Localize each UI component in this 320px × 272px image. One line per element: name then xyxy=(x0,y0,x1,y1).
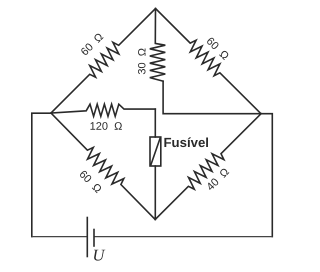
svg-text:60 Ω: 60 Ω xyxy=(204,35,231,62)
wire left node to left edge xyxy=(32,113,51,236)
resistor 60ohm top-left branch xyxy=(51,9,156,114)
svg-text:Fusível: Fusível xyxy=(163,135,208,150)
resistor 40ohm bottom-right branch xyxy=(155,114,261,220)
wire bottom right to battery xyxy=(94,236,272,238)
wire bottom left to battery xyxy=(32,236,88,238)
wire fuse to bottom node xyxy=(154,166,156,220)
svg-text:U: U xyxy=(92,246,105,265)
svg-text:120 Ω: 120 Ω xyxy=(90,121,123,133)
resistor 30ohm vertical xyxy=(150,9,166,82)
fuse F1 xyxy=(150,137,161,166)
battery U: long plate xyxy=(86,218,88,257)
resistor 60ohm top-right branch xyxy=(156,9,262,114)
svg-text:30 Ω: 30 Ω xyxy=(137,48,149,75)
wire 120ohm to fuse xyxy=(154,109,156,137)
wire from 30ohm resistor to right node xyxy=(163,81,261,114)
resistor 120ohm xyxy=(51,104,155,116)
resistor 60ohm bottom-left branch xyxy=(51,113,155,220)
wire right node to right edge xyxy=(261,114,272,237)
battery U: short plate xyxy=(93,230,95,247)
